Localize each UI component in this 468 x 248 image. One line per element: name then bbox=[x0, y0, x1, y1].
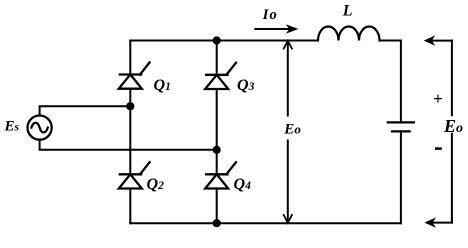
AC source Es bbox=[27, 116, 51, 140]
inductor L bbox=[318, 27, 380, 41]
output voltage bracket Eo (right) bbox=[424, 35, 452, 227]
svg-text:+: + bbox=[433, 89, 443, 108]
wire left leg lower bbox=[129, 189, 131, 224]
wire left leg upper bbox=[129, 41, 131, 75]
current arrow Io bbox=[255, 24, 298, 34]
svg-text:Es: Es bbox=[4, 119, 20, 135]
svg-text:Q3: Q3 bbox=[237, 77, 255, 94]
junction dot node source-top / left leg bbox=[126, 102, 134, 110]
wire source bottom lead bbox=[40, 140, 217, 150]
junction dot node source-bottom / right leg bbox=[213, 146, 221, 154]
svg-text:Q2: Q2 bbox=[147, 176, 165, 193]
svg-text:Q4: Q4 bbox=[234, 176, 252, 193]
wire top rail right segment bbox=[380, 40, 401, 42]
wire source top lead bbox=[40, 106, 131, 115]
svg-text:L: L bbox=[342, 2, 353, 19]
wire right leg upper bbox=[216, 41, 218, 75]
thyristor Q1 bbox=[119, 62, 150, 88]
svg-text:Io: Io bbox=[262, 7, 277, 23]
thyristor Q4 bbox=[205, 162, 236, 188]
wire bottom rail bbox=[130, 222, 401, 224]
thyristor Q2 bbox=[119, 162, 150, 188]
voltage arrow Eo (middle, double headed) bbox=[284, 41, 292, 223]
svg-text:Eo: Eo bbox=[283, 122, 301, 138]
capacitor C bbox=[388, 122, 414, 131]
wire capacitor branch upper bbox=[400, 41, 402, 123]
svg-text:Q1: Q1 bbox=[154, 77, 171, 94]
thyristor Q3 bbox=[205, 63, 236, 89]
wire right leg middle bbox=[216, 89, 218, 174]
wire left leg middle bbox=[129, 89, 131, 175]
wire right leg lower bbox=[216, 189, 218, 224]
wire top rail bbox=[130, 40, 318, 42]
svg-text:Eo: Eo bbox=[443, 116, 463, 136]
label minus sign bbox=[436, 147, 440, 150]
wire capacitor branch lower bbox=[400, 131, 402, 223]
junction dot node bottom rail / right leg bbox=[213, 219, 221, 227]
junction dot node top rail / right leg bbox=[213, 36, 221, 44]
